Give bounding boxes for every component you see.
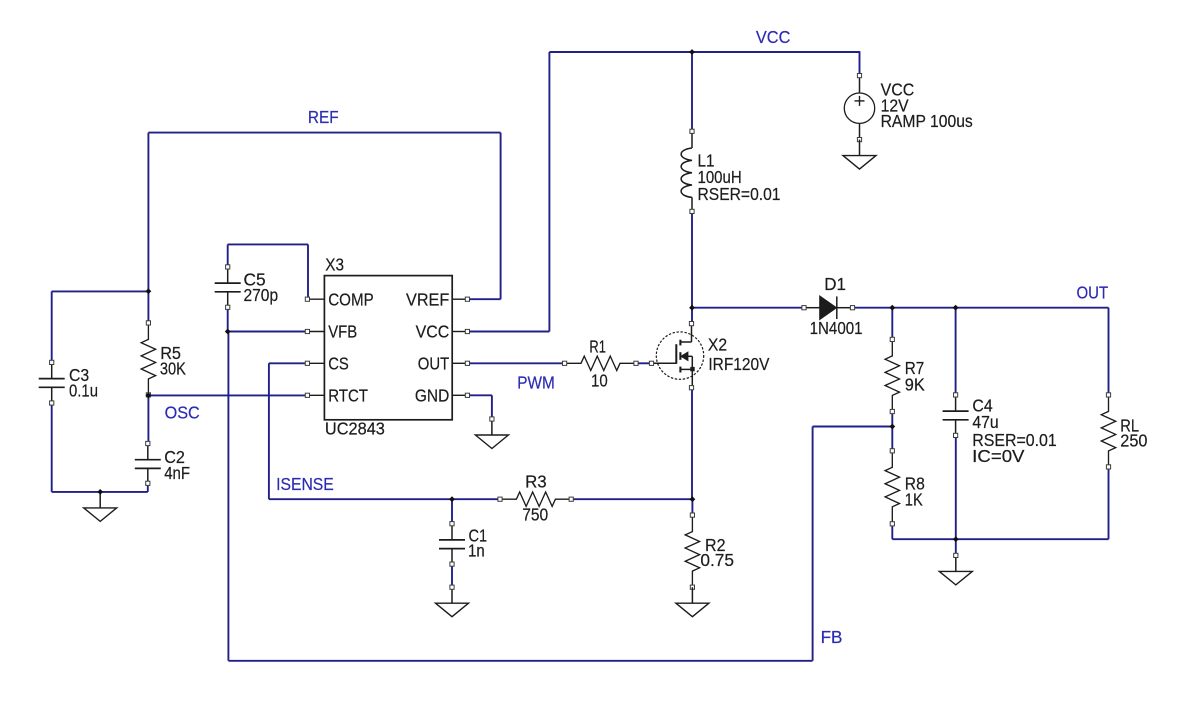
svg-text:30K: 30K bbox=[160, 359, 186, 379]
svg-text:RSER=0.01: RSER=0.01 bbox=[698, 184, 781, 204]
svg-text:UC2843: UC2843 bbox=[325, 418, 385, 438]
svg-text:1n: 1n bbox=[468, 541, 485, 561]
svg-text:OSC: OSC bbox=[165, 403, 200, 423]
svg-text:CS: CS bbox=[328, 354, 349, 374]
svg-text:IC=0V: IC=0V bbox=[972, 446, 1025, 466]
svg-text:1N4001: 1N4001 bbox=[810, 318, 863, 338]
svg-text:VREF: VREF bbox=[406, 289, 449, 309]
svg-text:X3: X3 bbox=[325, 254, 344, 274]
svg-text:VCC: VCC bbox=[416, 322, 450, 342]
svg-text:PWM: PWM bbox=[517, 373, 555, 393]
svg-text:VCC: VCC bbox=[756, 27, 791, 47]
svg-text:COMP: COMP bbox=[328, 289, 374, 309]
svg-text:4nF: 4nF bbox=[164, 463, 190, 483]
svg-text:250: 250 bbox=[1120, 431, 1147, 451]
svg-text:VFB: VFB bbox=[328, 322, 357, 342]
svg-text:10: 10 bbox=[591, 370, 608, 390]
svg-text:750: 750 bbox=[522, 505, 548, 525]
svg-text:FB: FB bbox=[821, 627, 843, 647]
svg-text:D1: D1 bbox=[824, 274, 846, 294]
svg-text:0.75: 0.75 bbox=[700, 550, 734, 570]
svg-text:IRF120V: IRF120V bbox=[708, 354, 769, 374]
svg-text:9K: 9K bbox=[905, 374, 925, 394]
svg-text:RTCT: RTCT bbox=[328, 386, 368, 406]
svg-text:ISENSE: ISENSE bbox=[276, 474, 334, 494]
svg-text:X2: X2 bbox=[708, 335, 727, 355]
svg-text:R3: R3 bbox=[525, 472, 547, 492]
svg-text:0.1u: 0.1u bbox=[69, 380, 98, 400]
svg-text:R1: R1 bbox=[589, 337, 606, 357]
svg-text:47u: 47u bbox=[972, 412, 998, 432]
svg-text:RAMP 100us: RAMP 100us bbox=[881, 111, 973, 131]
svg-text:1K: 1K bbox=[905, 489, 923, 509]
svg-text:OUT: OUT bbox=[418, 354, 450, 374]
svg-text:OUT: OUT bbox=[1077, 283, 1109, 303]
svg-text:REF: REF bbox=[308, 107, 339, 127]
svg-text:GND: GND bbox=[415, 386, 449, 406]
svg-text:270p: 270p bbox=[244, 285, 279, 305]
